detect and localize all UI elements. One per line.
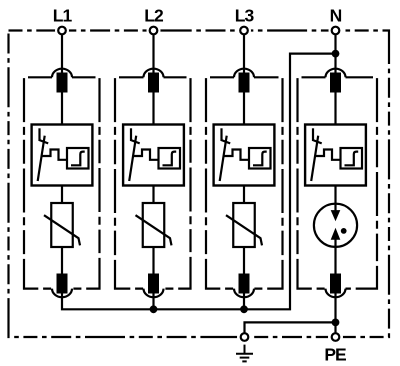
node: L3 junction bbox=[240, 305, 248, 313]
module outline (dashed) L1 right bbox=[72, 77, 100, 288]
svg-text:PE: PE bbox=[324, 345, 346, 365]
wire: N module to PE terminal bbox=[334, 294, 336, 334]
terminal block (lower) bbox=[57, 274, 68, 294]
device enclosure (dash-dot outline) bbox=[9, 31, 390, 338]
wire bbox=[334, 247, 336, 274]
terminal halo L1 bbox=[55, 24, 69, 38]
terminal block (lower) bbox=[239, 274, 250, 294]
thermal disconnector with status indicator N bbox=[305, 125, 366, 186]
terminal halo N bbox=[329, 24, 343, 38]
module outline (dashed) N left bbox=[298, 77, 326, 288]
terminal block (upper) bbox=[330, 73, 341, 93]
thermal disconnector with status indicator L3 bbox=[214, 125, 275, 186]
varistor (MOV) L2 bbox=[136, 203, 172, 247]
module outline (dashed) L3 left bbox=[206, 77, 234, 288]
module outline (dashed) L3 right bbox=[254, 77, 283, 288]
module outline (dashed) L2 right bbox=[164, 77, 191, 288]
wire bbox=[152, 93, 154, 125]
PE terminal halo bbox=[328, 330, 343, 345]
ground terminal halo bbox=[237, 330, 252, 345]
spark gap (N-PE gas discharge) bbox=[314, 204, 357, 247]
earth ground symbol bbox=[236, 345, 253, 362]
wire bbox=[243, 93, 245, 125]
wire bbox=[243, 34, 245, 73]
svg-text:L2: L2 bbox=[144, 5, 164, 25]
terminal block (lower) bbox=[148, 274, 159, 294]
terminal block (upper) bbox=[239, 73, 250, 93]
varistor (MOV) L1 bbox=[44, 203, 80, 247]
branch L3 bbox=[206, 5, 283, 297]
wire bbox=[61, 247, 63, 274]
terminal L1 bbox=[58, 27, 66, 35]
svg-text:L3: L3 bbox=[235, 5, 255, 25]
wire bbox=[152, 186, 154, 204]
node: N to common bus bbox=[332, 50, 340, 58]
wire bbox=[61, 93, 63, 125]
wire bbox=[61, 186, 63, 204]
PE terminal bbox=[332, 333, 340, 341]
terminal L3 bbox=[240, 27, 248, 35]
wire bbox=[152, 34, 154, 73]
wire bbox=[243, 247, 245, 274]
terminal block (lower) bbox=[330, 274, 341, 294]
wire L3 to bus bbox=[243, 294, 245, 310]
branch L2 bbox=[115, 5, 191, 297]
module exit bump (bottom) bbox=[326, 289, 346, 298]
module entry bump (top) bbox=[326, 69, 346, 78]
module exit bump (bottom) bbox=[234, 289, 254, 298]
module outline (dashed) L1 left bbox=[24, 77, 52, 288]
wire bbox=[334, 186, 336, 204]
wire bbox=[334, 93, 336, 125]
module outline (dashed) L2 left bbox=[115, 77, 144, 288]
wire bbox=[243, 186, 245, 204]
module entry bump (top) bbox=[234, 69, 254, 78]
ground terminal bbox=[241, 333, 249, 341]
wire: ground terminal to PE node bbox=[245, 322, 336, 333]
thermal disconnector with status indicator L1 bbox=[32, 125, 93, 186]
branch L1 bbox=[24, 5, 100, 297]
terminal block (upper) bbox=[148, 73, 159, 93]
terminal halo L2 bbox=[147, 24, 161, 38]
node: PE junction bbox=[332, 319, 340, 327]
wire: common bus from L1/L2/L3 to node N bbox=[62, 54, 336, 310]
terminal halo L3 bbox=[237, 24, 251, 38]
terminal N bbox=[332, 27, 340, 35]
node: L2 junction bbox=[150, 305, 158, 313]
terminal L2 bbox=[150, 27, 158, 35]
svg-text:N: N bbox=[330, 5, 342, 25]
wire L2 to bus bbox=[152, 294, 154, 310]
branch N bbox=[298, 5, 378, 297]
terminal block (upper) bbox=[57, 73, 68, 93]
wire bbox=[152, 247, 154, 274]
wire bbox=[61, 34, 63, 73]
module exit bump (bottom) bbox=[52, 289, 72, 298]
module entry bump (top) bbox=[52, 69, 72, 78]
svg-text:L1: L1 bbox=[53, 5, 73, 25]
module outline (dashed) N right bbox=[346, 77, 378, 288]
wire bbox=[334, 34, 336, 73]
module entry bump (top) bbox=[144, 69, 164, 78]
module exit bump (bottom) bbox=[144, 289, 164, 298]
varistor (MOV) L3 bbox=[226, 203, 262, 247]
thermal disconnector with status indicator L2 bbox=[123, 125, 184, 186]
